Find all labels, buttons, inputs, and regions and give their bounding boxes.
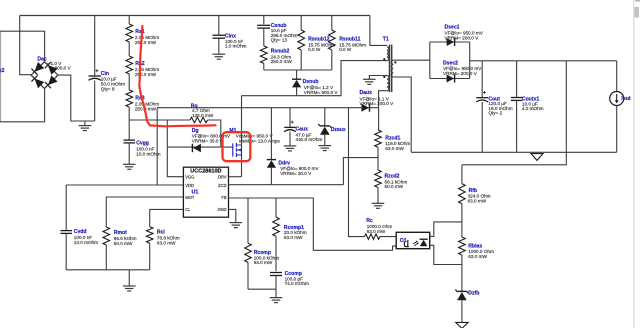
- wire AC top from source to bridge: [0, 31, 45, 62]
- transformer T1 aux winding: [387, 76, 389, 91]
- value label Dg: [192, 134, 231, 144]
- ground Rzcd2 ground: [372, 203, 385, 208]
- wire Dzfb bottom lead: [461, 300, 463, 323]
- svg-text:63.0 mW: 63.0 mW: [385, 146, 404, 151]
- svg-text:UCC28610D: UCC28610D: [190, 168, 221, 174]
- wire Rcomp top lead: [247, 198, 249, 243]
- svg-text:VRRM= 200.0 V: VRRM= 200.0 V: [445, 35, 480, 40]
- resistor Rg: [190, 117, 208, 122]
- wire Csnub top lead: [263, 16, 265, 25]
- svg-text:x2: x2: [0, 68, 5, 74]
- value label Rg: [192, 108, 214, 118]
- value label Ra3: [135, 101, 159, 111]
- wire Dzaux top lead: [324, 108, 326, 126]
- value label Rzcd2: [385, 179, 408, 189]
- wire Rsnub12 bottom lead: [300, 50, 302, 70]
- wire Rsnub2 bottom lead: [263, 63, 265, 70]
- value label Rcomp1: [284, 230, 307, 240]
- wire Rzcd1 top lead: [378, 108, 380, 130]
- svg-text:250.0 mW: 250.0 mW: [271, 59, 293, 64]
- ground Caux ground: [284, 146, 297, 151]
- capacitor Caux: [284, 121, 296, 132]
- ground IC ground: [230, 223, 243, 228]
- svg-text:63.0 mW: 63.0 mW: [157, 241, 176, 246]
- wire Cinx bottom lead: [218, 38, 220, 54]
- capacitor Ccomp: [270, 273, 282, 276]
- value label Coutx1: [522, 102, 544, 112]
- resistor Rfb: [459, 184, 466, 204]
- resistor Rsnub11: [328, 30, 335, 50]
- wire analog ground bus: [66, 269, 150, 271]
- wire Cout bottom lead: [481, 102, 483, 152]
- value label Rcl: [157, 236, 180, 246]
- wire Cin branch bottom: [94, 81, 96, 122]
- wire Dsec1 wire: [430, 41, 470, 43]
- svg-text:DRV: DRV: [218, 174, 227, 179]
- wire GND pin wire: [229, 209, 236, 222]
- svg-text:250.0 mW: 250.0 mW: [135, 40, 157, 45]
- wire Rfb bottom lead: [461, 204, 463, 237]
- svg-text:1.0 mOhm: 1.0 mOhm: [225, 44, 247, 49]
- svg-text:VRRM= 600.0 V: VRRM= 600.0 V: [304, 90, 339, 95]
- wire Caux top lead: [289, 108, 291, 128]
- wire Rzcd1-Rzcd2 lead: [377, 147, 379, 170]
- capacitor Cvgg: [124, 140, 136, 143]
- wire ground stem bus: [128, 270, 130, 286]
- wire aux top to ground: [369, 76, 387, 80]
- wire Ccomp bottom lead: [275, 276, 277, 290]
- wire snubber bottom bus: [264, 69, 332, 71]
- svg-text:Qty= 8: Qty= 8: [101, 86, 115, 91]
- svg-text:63.0 mW: 63.0 mW: [468, 254, 487, 259]
- wire secondary top to Dsec box: [393, 59, 430, 61]
- svg-text:440.0 mOhm: 440.0 mOhm: [296, 137, 323, 142]
- svg-text:125.0 mW: 125.0 mW: [192, 113, 214, 118]
- wire comp ground bus: [248, 288, 276, 290]
- svg-text:74.0 mOhm: 74.0 mOhm: [285, 281, 309, 286]
- svg-text:Dac: Dac: [37, 56, 47, 62]
- wire Vout+ rail: [470, 60, 617, 62]
- ground Cinx ground: [212, 54, 225, 59]
- svg-text:Dzaux: Dzaux: [331, 127, 346, 133]
- wire feedback tap from Vout+: [462, 61, 566, 165]
- capacitor Cin: [89, 69, 102, 80]
- resistor Rzcd2: [375, 170, 382, 188]
- wire VDD pin wire: [66, 184, 183, 186]
- svg-text:0.0 W: 0.0 W: [339, 47, 352, 52]
- value label Rsnub2: [271, 54, 293, 64]
- wire M1 drain lead: [241, 96, 243, 145]
- wire Caux bottom lead: [289, 132, 291, 146]
- svg-text:0.0 W: 0.0 W: [308, 47, 321, 52]
- value label Ddrv: [280, 166, 319, 176]
- svg-text:Qty= 2: Qty= 2: [488, 111, 502, 116]
- value label Daux: [360, 96, 395, 106]
- transformer T1 core: [389, 45, 391, 92]
- diode Dsec2: [447, 75, 455, 83]
- svg-text:FB: FB: [221, 195, 227, 200]
- wire Cinx top lead: [218, 16, 220, 36]
- svg-text:Dzfb: Dzfb: [468, 291, 479, 297]
- value label Cin: [101, 77, 125, 92]
- wire ground stem input: [84, 121, 86, 126]
- value label Csnub: [271, 28, 298, 43]
- diode Dsec1: [447, 38, 455, 46]
- resistor Ra1: [126, 24, 133, 42]
- value label Caux: [296, 132, 323, 142]
- wire Rmot bottom lead: [105, 245, 107, 270]
- value label Rfb: [468, 194, 491, 204]
- current source Iout: [610, 92, 624, 106]
- wire Vout- rail: [411, 151, 617, 153]
- resistor Rc: [365, 234, 380, 239]
- wire Coutx1 top lead: [516, 61, 518, 98]
- transformer T1 secondary winding: [391, 60, 393, 77]
- wire VGG pin drop: [167, 120, 183, 177]
- wire M1 source lead: [241, 155, 243, 177]
- ground Dzaux ground: [319, 146, 332, 151]
- diode Daux: [362, 104, 370, 112]
- svg-text:Daux: Daux: [360, 90, 373, 96]
- svg-text:T1: T1: [383, 36, 389, 42]
- corner mark: [635, 0, 640, 2]
- svg-text:63.0 mW: 63.0 mW: [254, 260, 273, 265]
- svg-text:63.0 mW: 63.0 mW: [468, 198, 487, 203]
- ground aux winding ground: [363, 79, 376, 84]
- svg-text:50.0 mW: 50.0 mW: [385, 184, 404, 189]
- wire Cvgg top lead: [128, 120, 130, 140]
- wire Rsnub11 bottom lead: [331, 50, 333, 70]
- value label Cvdd: [74, 235, 98, 245]
- wire Rc to opto: [380, 236, 396, 238]
- wire Rcomp1 top lead: [275, 198, 277, 217]
- diode Ddrv: [267, 160, 276, 168]
- wire Ra2-Ra3 lead: [128, 74, 130, 90]
- wire Rsnub12 top lead: [300, 16, 302, 31]
- wire Coutx1 bottom lead: [516, 100, 518, 152]
- wire Ra1 top lead: [128, 16, 130, 25]
- wire Dsnub bottom lead: [296, 87, 298, 95]
- svg-text:VRRM= 200.0 V: VRRM= 200.0 V: [360, 101, 395, 106]
- resistor Rcomp1: [273, 217, 280, 236]
- zener diode Dzaux: [318, 124, 331, 135]
- value label Cout: [488, 101, 512, 115]
- secondary ground arrow: [456, 322, 468, 328]
- wire Cin branch top: [94, 16, 96, 77]
- value label Ra2: [135, 67, 159, 77]
- svg-text:63.0 mW: 63.0 mW: [284, 235, 303, 240]
- wire MOT pin wire: [106, 197, 183, 227]
- value label Rc: [367, 224, 393, 234]
- wire Rcomp bottom lead: [247, 262, 249, 289]
- wire Cvdd bottom lead: [65, 233, 67, 269]
- highlight box around M1: [223, 132, 251, 161]
- wire Ddrv top lead: [270, 108, 272, 160]
- wire Rsnub11 top lead: [331, 16, 333, 31]
- svg-text:VDD: VDD: [185, 183, 194, 188]
- wire opto emitter to Rbias node: [430, 245, 462, 264]
- wire secondary bottom return: [393, 77, 411, 152]
- value label Rcomp: [254, 255, 279, 265]
- svg-text:VRRM= 200.0 V: VRRM= 200.0 V: [443, 71, 478, 76]
- wire M1 drain bus: [242, 61, 388, 96]
- wire FB pin wire: [229, 198, 397, 250]
- wire VGG node wire: [129, 119, 190, 121]
- resistor Rcl: [146, 227, 153, 244]
- svg-text:4.0 mOhm: 4.0 mOhm: [522, 106, 544, 111]
- svg-text:Rc: Rc: [366, 218, 373, 224]
- wire Rzcd2 bottom lead: [377, 188, 379, 204]
- capacitor Cout: [476, 91, 488, 102]
- wire Dsnub top lead: [296, 70, 298, 79]
- ground comp ground: [270, 298, 283, 303]
- ground input ground: [79, 126, 92, 131]
- scrollbar thumb: [634, 7, 639, 18]
- value label Rzcd1: [385, 141, 410, 151]
- svg-text:50.0 mW: 50.0 mW: [114, 241, 133, 246]
- value label Ccomp: [285, 276, 309, 286]
- wire Iout top lead: [616, 61, 618, 92]
- wire aux bottom to VDD rail: [379, 91, 387, 108]
- wire ZCD pin wire: [229, 184, 344, 186]
- resistor Rzcd1: [375, 130, 382, 147]
- svg-text:Iout: Iout: [621, 96, 631, 102]
- svg-text:IdsMax= 13.0 Amps: IdsMax= 13.0 Amps: [239, 139, 281, 144]
- value label M1 Ids: [239, 139, 281, 144]
- resistor Rbias: [459, 237, 466, 255]
- value label M1 Vds: [236, 134, 274, 139]
- wire VDD rail: [157, 107, 378, 109]
- wire Dsec2 wire: [430, 78, 470, 80]
- wire ZCD divider tap: [343, 158, 378, 185]
- value label Rsnub12: [308, 42, 335, 52]
- wire Iout bottom lead: [616, 106, 618, 153]
- resistor Ra3: [126, 90, 133, 107]
- scrollbar track: [633, 0, 635, 328]
- value label Cinx: [225, 39, 247, 49]
- wire Ra3 bottom lead to VGG node: [128, 107, 130, 120]
- transformer T1 primary winding: [387, 47, 389, 61]
- value label Dac VRRM: [55, 66, 72, 71]
- svg-text:CL: CL: [185, 207, 191, 212]
- T1 phase dots: [383, 58, 385, 60]
- wire primary top riser: [370, 16, 387, 46]
- op-amp U1 UCC28610D body: [183, 167, 228, 217]
- wire Cout top lead: [481, 61, 483, 98]
- resistor Ra2: [126, 56, 133, 74]
- wire Dzaux bottom lead: [324, 135, 326, 146]
- value label Dsec2: [443, 66, 482, 76]
- svg-text:MOT: MOT: [185, 195, 195, 200]
- wire Dg wire to M1 gate: [167, 146, 233, 148]
- svg-text:Qty= 13: Qty= 13: [271, 38, 288, 43]
- zener diode Dzfb: [455, 290, 468, 301]
- svg-text:VRRM= 30.0 V: VRRM= 30.0 V: [192, 139, 224, 144]
- wire bridge DC- to Cin ground: [58, 75, 95, 121]
- wire Ccomp gnd stem: [275, 289, 277, 297]
- capacitor Cinx: [213, 35, 226, 38]
- value label Ra1: [135, 35, 159, 45]
- wire Rg right lead to gate drop: [208, 120, 221, 147]
- value label Rmot: [114, 236, 137, 246]
- value label Dsec1: [445, 31, 484, 41]
- value label Cvgg: [136, 147, 160, 157]
- wire Dsec box left: [429, 42, 431, 79]
- value label Rbias: [468, 249, 494, 259]
- wire VDD drop: [156, 108, 158, 185]
- diode Dsnub: [292, 79, 301, 87]
- resistor Rsnub2: [260, 46, 267, 64]
- wire Rcomp1-Ccomp lead: [275, 236, 277, 271]
- bridge rectifier Dac: [31, 62, 58, 89]
- resistor Rmot: [103, 227, 110, 245]
- transistor M1: [233, 143, 242, 157]
- svg-text:250.0 mW: 250.0 mW: [135, 72, 157, 77]
- svg-text:GND: GND: [217, 207, 226, 212]
- wire Rfb top lead: [461, 165, 463, 184]
- red annotation trace: [139, 26, 215, 126]
- svg-text:10.0 mOhm: 10.0 mOhm: [74, 240, 98, 245]
- svg-text:ZCD: ZCD: [218, 183, 226, 188]
- capacitor Csnub: [257, 25, 270, 28]
- ground bottom-left ground: [123, 286, 136, 291]
- wire Csnub-Rsnub2 lead: [263, 28, 265, 46]
- wire Cvdd top lead: [65, 185, 67, 230]
- output ground arrow: [531, 154, 543, 161]
- wire DRV pin wire: [229, 176, 242, 178]
- capacitor Coutx1: [511, 98, 523, 101]
- wire Rcl bottom lead: [149, 243, 151, 270]
- value label Dac: [47, 61, 63, 66]
- AC source Vac x2 (clipped box edge): [0, 31, 2, 122]
- wire Cvgg bottom lead: [128, 143, 130, 164]
- diode Dg: [192, 144, 201, 152]
- wire AC bottom from bridge to source: [0, 89, 45, 122]
- svg-text:VGG: VGG: [185, 174, 194, 179]
- wire CL pin wire: [150, 209, 184, 226]
- ground Cvgg ground: [123, 164, 136, 169]
- wire opto collector to fb node: [430, 222, 462, 237]
- wire HV+ top rail: [20, 15, 370, 17]
- capacitor Cvdd: [61, 231, 73, 234]
- svg-text:63.0 mW: 63.0 mW: [367, 229, 386, 234]
- resistor Rcomp: [245, 243, 252, 262]
- wire Dsec box right: [469, 42, 471, 79]
- wire Rc drop from VDD rail: [349, 108, 365, 237]
- wire Ddrv bottom lead: [270, 168, 272, 185]
- svg-text:O1: O1: [400, 238, 407, 244]
- value label Dsnub: [304, 85, 339, 95]
- resistor Rsnub12: [298, 30, 305, 50]
- optocoupler O1: [396, 232, 430, 248]
- value label Rsnub11: [339, 42, 366, 52]
- svg-text:600.0 V: 600.0 V: [55, 66, 72, 71]
- svg-text:VRRM= 30.0 V: VRRM= 30.0 V: [280, 171, 312, 176]
- wire bridge DC+ to top rail riser: [20, 16, 32, 75]
- wire Ra1-Ra2 lead: [128, 42, 130, 56]
- wire Rbias bottom lead: [461, 255, 463, 291]
